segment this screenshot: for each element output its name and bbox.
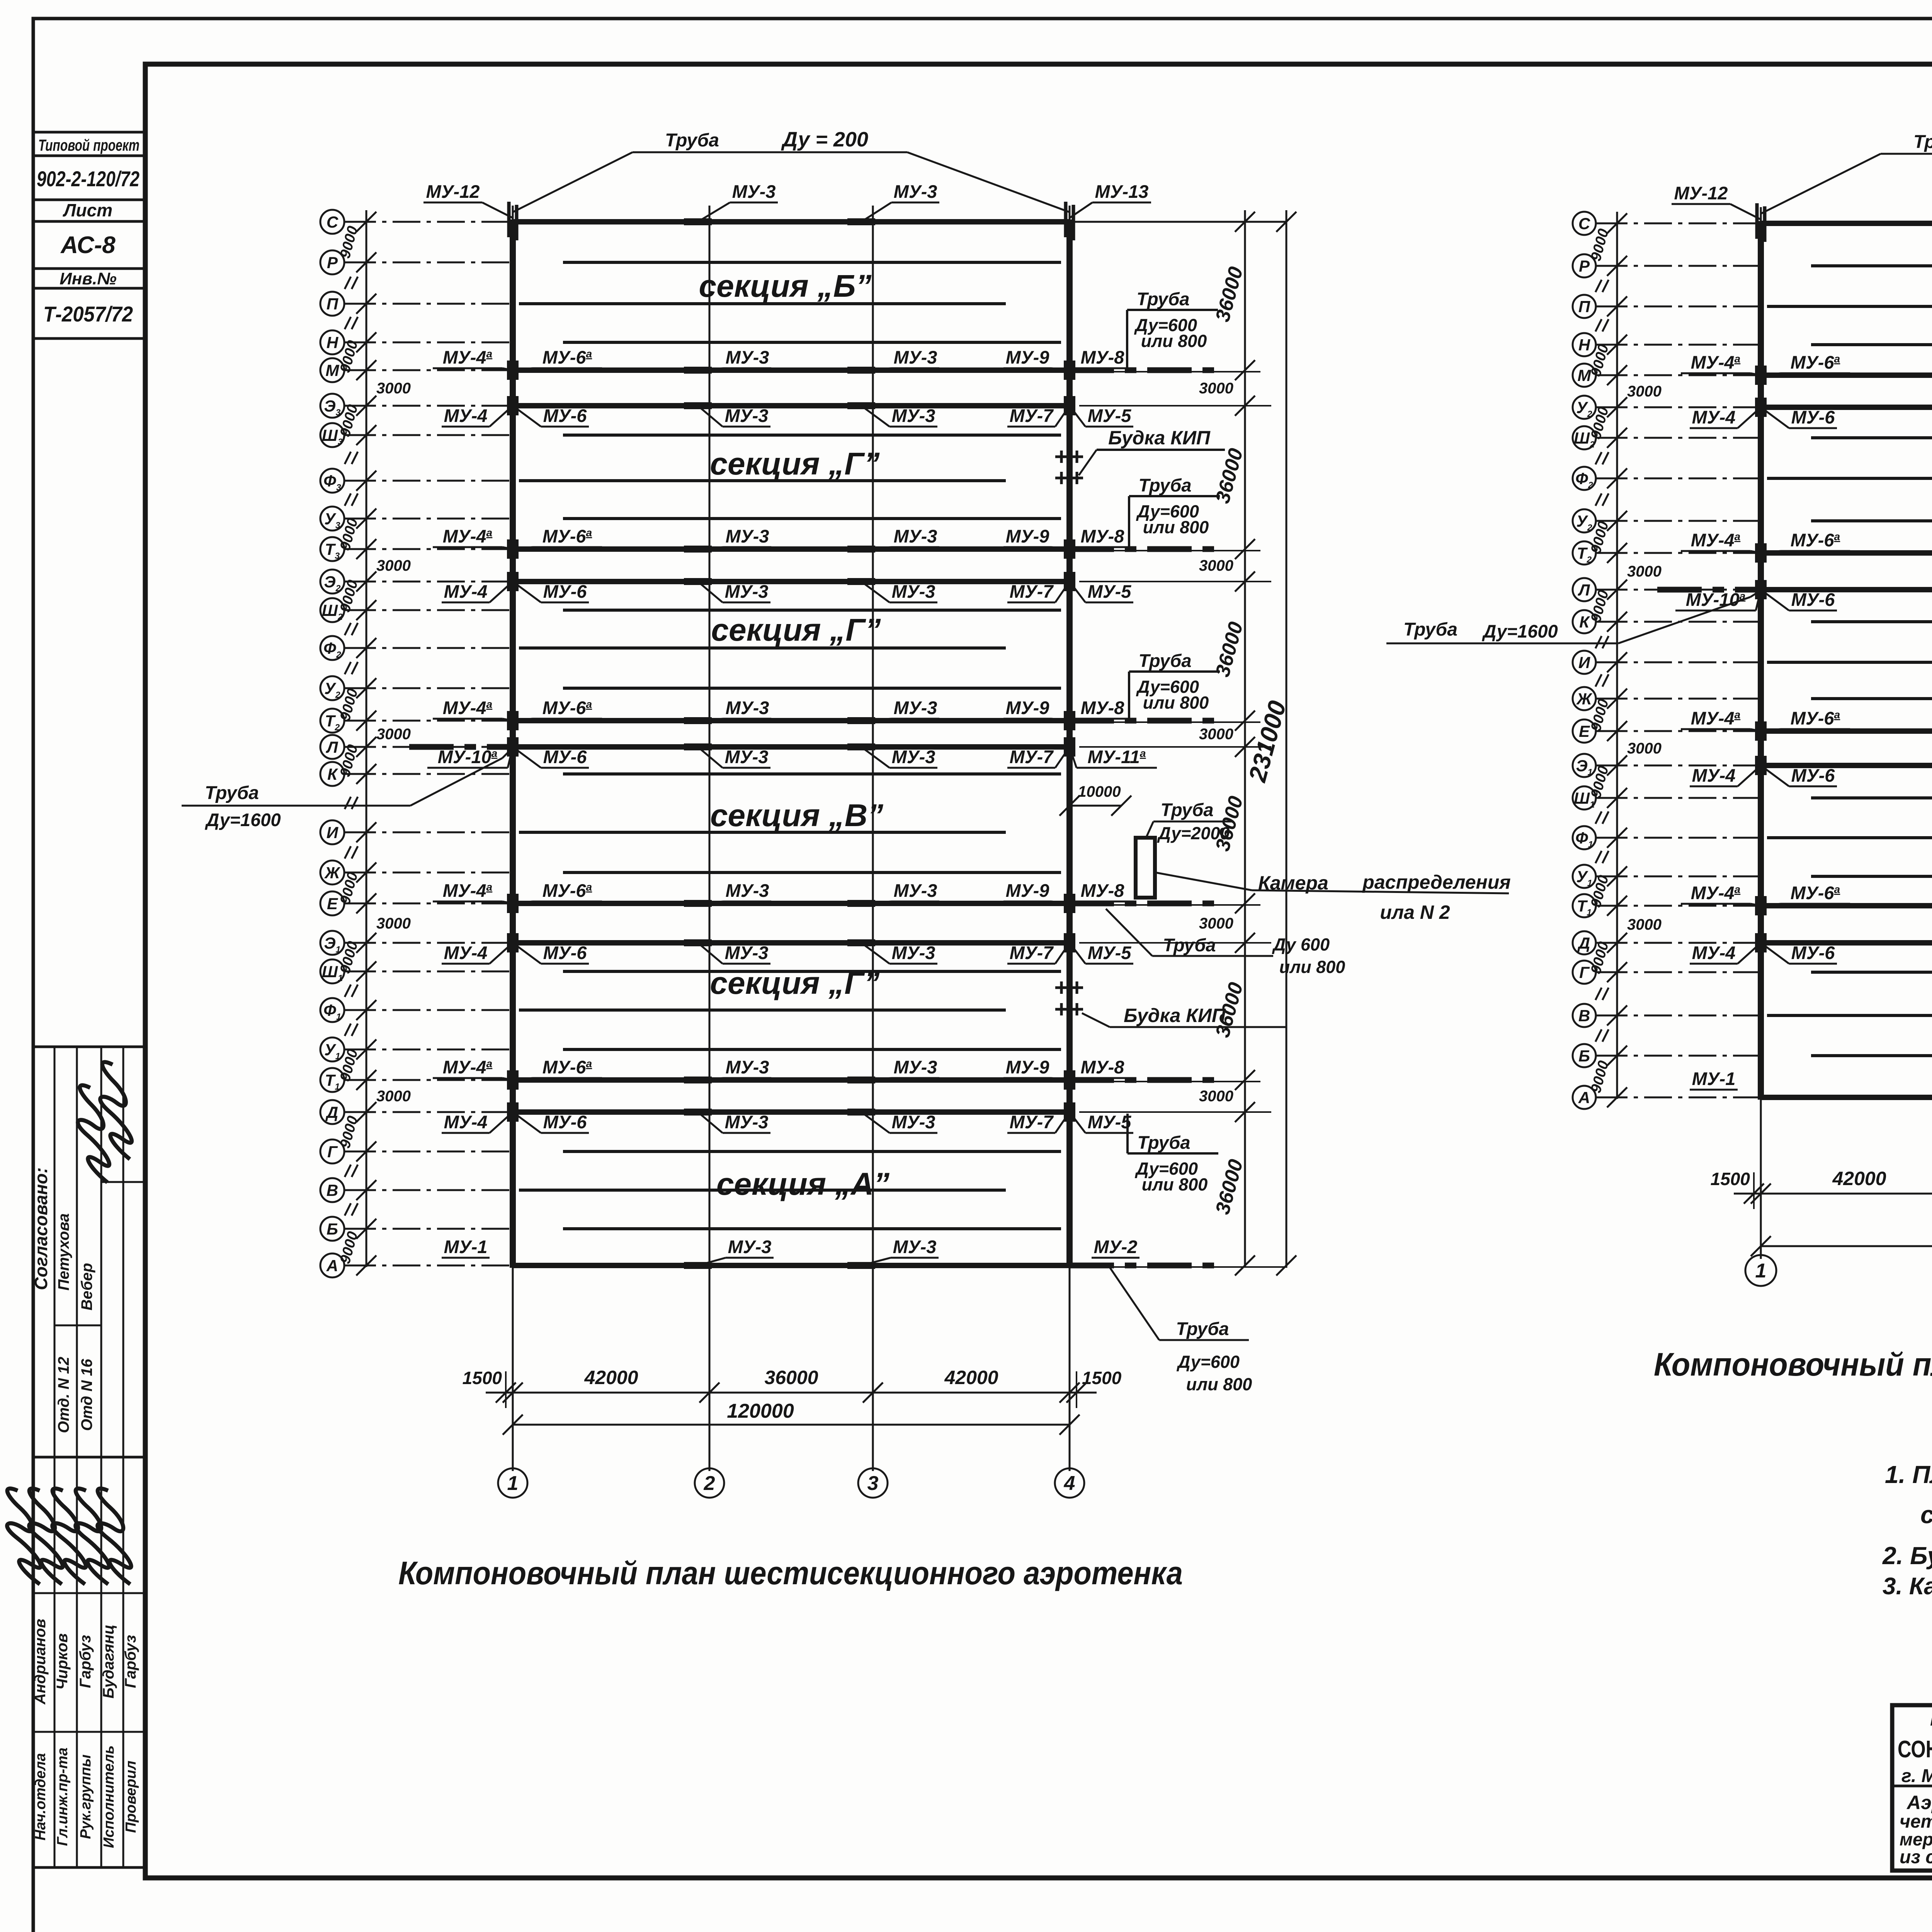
left plan: grid row Г <box>320 1139 344 1163</box>
svg-text:или 800: или 800 <box>1141 331 1207 351</box>
svg-text:Труба: Труба <box>1139 475 1192 495</box>
svg-text:1500: 1500 <box>1082 1368 1122 1388</box>
svg-text:МУ-4: МУ-4 <box>444 581 488 602</box>
svg-text:Л: Л <box>1578 581 1590 599</box>
svg-text:МУ-4а: МУ-4а <box>1691 708 1740 728</box>
right plan: tank side wall left <box>1758 221 1764 1100</box>
approval table inner lines <box>101 1181 145 1183</box>
svg-text:Труба: Труба <box>1138 1132 1190 1153</box>
svg-text:МУ-6: МУ-6 <box>543 405 587 426</box>
svg-text:Вебер: Вебер <box>78 1263 95 1310</box>
svg-text:МУ-4: МУ-4 <box>1692 765 1736 786</box>
svg-text:Труба: Труба <box>1137 289 1190 309</box>
right plan: grid row У2 <box>1573 509 1596 532</box>
right plan: grid row У1 <box>1573 865 1596 888</box>
right plan: grid row Ш1 <box>1573 786 1596 810</box>
svg-text:42000: 42000 <box>1832 1168 1886 1189</box>
svg-text:МУ-3: МУ-3 <box>892 747 935 767</box>
title block left cell split <box>1892 1785 1932 1787</box>
svg-text:МУ-5: МУ-5 <box>1088 1112 1132 1132</box>
svg-text:МУ-5: МУ-5 <box>1088 405 1132 426</box>
svg-text:2. Будку КИП см. лист АС-7: 2. Будку КИП см. лист АС-73. <box>1882 1542 1932 1570</box>
svg-text:Б: Б <box>1578 1047 1590 1065</box>
right plan: bottom dimension line 1 <box>1734 1193 1932 1195</box>
svg-text:МУ-4а: МУ-4а <box>443 1057 492 1077</box>
svg-text:4: 4 <box>1064 1472 1075 1495</box>
right plan: bottom total dim line <box>1761 1245 1932 1247</box>
svg-text:МУ-3: МУ-3 <box>726 1057 769 1077</box>
left plan: bottom dimension line 1 <box>486 1392 1097 1394</box>
svg-text:3000: 3000 <box>1627 383 1662 400</box>
svg-text:МУ-3: МУ-3 <box>728 1236 772 1257</box>
svg-text:Ду=1600: Ду=1600 <box>204 810 281 830</box>
svg-text:42000: 42000 <box>944 1367 998 1388</box>
svg-text:В: В <box>1578 1007 1590 1025</box>
svg-text:секция „Б”: секция „Б” <box>699 269 872 304</box>
svg-text:МУ-4: МУ-4 <box>1692 942 1736 963</box>
svg-text:МУ-7: МУ-7 <box>1010 1112 1054 1132</box>
svg-text:секция „Г”: секция „Г” <box>710 966 879 1001</box>
left plan: grid row Э1 <box>320 931 344 955</box>
svg-text:Ду=2000: Ду=2000 <box>1156 823 1230 843</box>
svg-text:Р: Р <box>327 253 338 272</box>
svg-text:МУ-3: МУ-3 <box>726 880 769 901</box>
right plan: grid row Д <box>1573 931 1596 954</box>
svg-text:МУ-6: МУ-6 <box>1791 589 1835 610</box>
svg-text:МУ-3: МУ-3 <box>894 526 937 546</box>
svg-text:МУ-4а: МУ-4а <box>1691 352 1740 372</box>
svg-text:МУ-2: МУ-2 <box>1094 1236 1138 1257</box>
svg-text:или 800: или 800 <box>1143 517 1209 537</box>
svg-text:3000: 3000 <box>1199 726 1233 743</box>
svg-text:МУ-5: МУ-5 <box>1088 581 1132 602</box>
svg-text:МУ-3: МУ-3 <box>894 1057 937 1077</box>
svg-text:Ж: Ж <box>324 864 341 882</box>
svg-text:С: С <box>1578 214 1590 233</box>
svg-text:36000: 36000 <box>764 1367 818 1388</box>
left plan: grid row В <box>320 1178 344 1202</box>
left plan: grid row У3 <box>320 507 344 531</box>
right plan: grid row Ф2 <box>1573 467 1596 490</box>
right plan: grid row Т1 <box>1573 894 1596 917</box>
svg-text:МУ-10а: МУ-10а <box>438 747 498 767</box>
svg-text:1: 1 <box>507 1472 519 1495</box>
svg-text:3000: 3000 <box>1199 1088 1233 1105</box>
left plan: grid row Ф1 <box>320 998 344 1022</box>
svg-text:МУ-3: МУ-3 <box>892 405 935 426</box>
svg-text:А: А <box>326 1257 338 1275</box>
svg-text:Е: Е <box>327 895 338 913</box>
svg-text:МУ-4а: МУ-4а <box>443 697 492 718</box>
right plan: grid row Ж <box>1573 687 1596 710</box>
svg-text:МУ-3: МУ-3 <box>892 1112 935 1132</box>
svg-text:МУ-10а: МУ-10а <box>1686 589 1746 610</box>
signature squiggle 4 <box>58 1488 126 1584</box>
svg-text:МУ-7: МУ-7 <box>1010 747 1054 767</box>
right plan: grid row Ф1 <box>1573 826 1596 849</box>
svg-text:секция „Г”: секция „Г” <box>711 612 881 648</box>
svg-text:Ж: Ж <box>1576 690 1593 708</box>
svg-text:Будка КИП: Будка КИП <box>1108 427 1211 449</box>
left plan: grid row Ж <box>320 861 344 884</box>
left plan: grid row Ш1 <box>320 959 344 983</box>
left plan: grid row Т2 <box>320 709 344 733</box>
svg-text:МУ-11а: МУ-11а <box>1087 747 1146 767</box>
svg-text:Б: Б <box>327 1220 338 1238</box>
svg-text:Инв.№: Инв.№ <box>60 269 116 288</box>
svg-text:МУ-3: МУ-3 <box>732 181 776 202</box>
svg-text:МУ-6а: МУ-6а <box>1791 530 1840 550</box>
svg-text:Труба: Труба <box>665 130 719 151</box>
svg-text:МУ-3: МУ-3 <box>726 347 769 367</box>
svg-text:МУ-9: МУ-9 <box>1006 880 1049 901</box>
left plan: grid row Ф2 <box>320 636 344 660</box>
svg-text:Госстрой СССР: Госстрой СССР <box>1930 1709 1932 1730</box>
right plan: grid row У2 <box>1573 396 1596 419</box>
right plan: grid row К <box>1573 610 1596 633</box>
svg-text:Труба: Труба <box>205 783 259 803</box>
svg-text:МУ-7: МУ-7 <box>1010 942 1054 963</box>
svg-text:МУ-6: МУ-6 <box>543 581 587 602</box>
svg-text:Исполнитель: Исполнитель <box>101 1745 117 1848</box>
svg-text:120000: 120000 <box>727 1400 794 1422</box>
left plan: grid row М <box>320 358 344 382</box>
svg-text:3000: 3000 <box>376 380 411 397</box>
right plan: inlet marks at top <box>1755 203 1759 239</box>
svg-text:3000: 3000 <box>1199 380 1233 397</box>
signature squiggle 1 <box>0 1488 58 1584</box>
signature squiggle 3 <box>35 1488 103 1584</box>
svg-text:МУ-4: МУ-4 <box>444 405 488 426</box>
svg-text:Труба: Труба <box>1176 1318 1229 1339</box>
title block frame <box>1892 1705 1932 1871</box>
signature squiggle 5 <box>80 1488 148 1584</box>
svg-text:Т-2057/72: Т-2057/72 <box>43 302 133 326</box>
svg-text:МУ-8: МУ-8 <box>1081 347 1125 367</box>
svg-text:Компоновочный план пятисекци: Компоновочный план пятисекционного аэрот… <box>1654 1346 1932 1383</box>
svg-text:3000: 3000 <box>376 915 411 932</box>
left plan: grid row Л <box>320 735 344 759</box>
svg-text:МУ-8: МУ-8 <box>1081 697 1125 718</box>
left plan: row dimension line column <box>366 210 367 1267</box>
svg-text:Г: Г <box>327 1143 338 1161</box>
svg-text:3: 3 <box>867 1472 879 1495</box>
svg-text:И: И <box>327 823 338 842</box>
svg-text:3. Камеру распределения ила: 3. Камеру распределения ила N2 см. л. АС… <box>1883 1573 1932 1600</box>
right plan: grid row Л <box>1573 578 1596 601</box>
left plan: grid row Т3 <box>320 537 344 561</box>
svg-text:МУ-13: МУ-13 <box>1095 181 1149 202</box>
left plan: boundary junction marks <box>684 218 712 225</box>
svg-text:902-2-120/72: 902-2-120/72 <box>37 167 139 191</box>
svg-text:Чирков: Чирков <box>54 1633 71 1690</box>
svg-text:СОЮЗВОДОКАНАЛПРОЕКТ: СОЮЗВОДОКАНАЛПРОЕКТ <box>1898 1736 1932 1763</box>
svg-text:Гарбуз: Гарбуз <box>122 1635 139 1688</box>
signature table row lines <box>33 1592 145 1594</box>
right plan: row dimension line column <box>1616 212 1618 1099</box>
svg-text:Типовой проект: Типовой проект <box>38 136 139 154</box>
svg-text:2: 2 <box>704 1472 715 1495</box>
svg-text:Петухова: Петухова <box>55 1213 72 1291</box>
right plan: grid row И <box>1573 651 1596 674</box>
left plan: grid row Н <box>320 330 344 354</box>
svg-text:МУ-6а: МУ-6а <box>543 1057 592 1077</box>
svg-text:С: С <box>327 213 338 231</box>
svg-text:3000: 3000 <box>1627 916 1662 933</box>
svg-text:Рук.группы: Рук.группы <box>78 1755 94 1839</box>
approval signature 1 <box>58 1085 130 1182</box>
svg-text:ила N 2: ила N 2 <box>1380 901 1450 923</box>
left plan: grid row Ш2 <box>320 598 344 622</box>
svg-text:Г: Г <box>1579 963 1590 981</box>
svg-text:АС-8: АС-8 <box>60 232 116 259</box>
svg-text:МУ-3: МУ-3 <box>894 181 937 202</box>
right plan: grid row С <box>1573 212 1596 235</box>
left plan: grid row У2 <box>320 676 344 700</box>
left plan: grid row Р <box>320 250 344 274</box>
svg-text:или 800: или 800 <box>1143 693 1209 713</box>
svg-text:3000: 3000 <box>376 1088 411 1105</box>
right plan: grid row А <box>1573 1086 1596 1109</box>
right plan: grid row Р <box>1573 254 1596 277</box>
svg-text:1500: 1500 <box>1711 1169 1750 1189</box>
svg-text:Н: Н <box>327 333 339 352</box>
left plan: grid row Ш3 <box>320 423 344 447</box>
left plan: grid row С <box>320 210 344 234</box>
svg-text:или 800: или 800 <box>1142 1175 1208 1194</box>
svg-text:3000: 3000 <box>1627 563 1662 580</box>
svg-text:МУ-6а: МУ-6а <box>543 697 592 718</box>
svg-text:секция „В”: секция „В” <box>710 798 883 833</box>
svg-text:МУ-3: МУ-3 <box>894 347 937 367</box>
signature squiggle 2 <box>12 1488 80 1584</box>
svg-text:МУ-6а: МУ-6а <box>543 526 592 546</box>
svg-text:Труба: Труба <box>1163 935 1216 955</box>
svg-text:3000: 3000 <box>1627 740 1662 757</box>
svg-text:МУ-9: МУ-9 <box>1006 1057 1049 1077</box>
svg-text:42000: 42000 <box>584 1367 638 1388</box>
svg-text:МУ-6: МУ-6 <box>1791 407 1835 427</box>
svg-text:Будагянц: Будагянц <box>100 1624 117 1698</box>
right plan: grid row В <box>1573 1004 1596 1027</box>
svg-text:МУ-3: МУ-3 <box>725 405 769 426</box>
right plan: grid row М <box>1573 364 1596 387</box>
svg-text:3000: 3000 <box>376 557 411 574</box>
left plan: grid row У1 <box>320 1037 344 1061</box>
svg-text:МУ-6: МУ-6 <box>543 1112 587 1132</box>
left plan: grid row П <box>320 292 344 316</box>
svg-text:Нач.отдела: Нач.отдела <box>32 1753 49 1840</box>
left plan: right dim line 36000 <box>1244 210 1246 1268</box>
right plan: grid row Ш2 <box>1573 426 1596 449</box>
svg-text:МУ-6: МУ-6 <box>1791 942 1835 963</box>
svg-text:В: В <box>327 1181 338 1199</box>
svg-text:Д: Д <box>1577 934 1590 952</box>
svg-text:МУ-4: МУ-4 <box>444 1112 488 1132</box>
left plan: column axis lines 1-4 <box>512 206 514 1471</box>
right plan: grid row Б <box>1573 1044 1596 1067</box>
svg-text:3000: 3000 <box>1199 557 1233 574</box>
svg-text:Компоновочный план шестисекц: Компоновочный план шестисекционного аэро… <box>398 1555 1183 1591</box>
svg-text:МУ-6: МУ-6 <box>543 942 587 963</box>
right plan: grid row Г <box>1573 961 1596 984</box>
right plan: grid row Э1 <box>1573 754 1596 777</box>
svg-text:Согласовано:: Согласовано: <box>31 1167 51 1290</box>
approval table frame <box>33 1047 145 1457</box>
svg-text:или 800: или 800 <box>1279 957 1345 977</box>
svg-text:МУ-1: МУ-1 <box>444 1236 488 1257</box>
svg-text:Р: Р <box>1579 257 1590 275</box>
svg-text:МУ-6: МУ-6 <box>543 747 587 767</box>
svg-text:Ду = 200: Ду = 200 <box>781 128 868 151</box>
svg-text:МУ-12: МУ-12 <box>426 181 480 202</box>
svg-text:МУ-4: МУ-4 <box>444 942 488 963</box>
svg-text:1500: 1500 <box>463 1368 502 1388</box>
left plan: grid row К <box>320 762 344 786</box>
svg-text:А: А <box>1578 1088 1590 1107</box>
svg-text:МУ-3: МУ-3 <box>894 880 937 901</box>
svg-text:Отд. N 12: Отд. N 12 <box>55 1357 72 1433</box>
svg-text:МУ-4а: МУ-4а <box>1691 530 1740 550</box>
svg-text:Аэротенки-смесители: Аэротенки-смесители <box>1906 1792 1932 1813</box>
svg-text:распределения: распределения <box>1362 871 1510 893</box>
svg-text:или 800: или 800 <box>1186 1374 1252 1394</box>
svg-text:МУ-3: МУ-3 <box>892 581 935 602</box>
svg-text:МУ-3: МУ-3 <box>893 1236 937 1257</box>
svg-text:МУ-7: МУ-7 <box>1010 581 1054 602</box>
left plan: grid row Э3 <box>320 394 344 418</box>
svg-text:10000: 10000 <box>1078 783 1121 800</box>
left plan: inlet marks at top <box>507 202 511 237</box>
svg-text:см. л.л. АС-9,10.: см. л.л. АС-9,10. <box>1920 1501 1932 1529</box>
left plan: sludge distribution chamber rectangle <box>1136 838 1155 898</box>
svg-text:МУ-4а: МУ-4а <box>1691 883 1740 903</box>
right plan: column axis lines 1-4 <box>1760 207 1762 1259</box>
svg-text:3000: 3000 <box>1199 915 1233 932</box>
svg-text:МУ-8: МУ-8 <box>1081 1057 1125 1077</box>
svg-text:Труба: Труба <box>1913 132 1932 152</box>
svg-text:Гл.инж.пр-та: Гл.инж.пр-та <box>54 1748 71 1846</box>
svg-text:МУ-3: МУ-3 <box>725 942 769 963</box>
signature table frame <box>33 1457 145 1867</box>
svg-text:секция „А”: секция „А” <box>716 1167 889 1202</box>
svg-text:МУ-9: МУ-9 <box>1006 526 1049 546</box>
svg-text:Ду=1600: Ду=1600 <box>1481 621 1558 641</box>
svg-text:Андрианов: Андрианов <box>32 1619 49 1705</box>
svg-text:г. Москва: г. Москва <box>1901 1766 1932 1786</box>
svg-text:Д: Д <box>325 1103 338 1121</box>
approval table column lines <box>54 1047 56 1457</box>
svg-text:МУ-4а: МУ-4а <box>443 347 492 367</box>
left plan: grid row Э2 <box>320 570 344 594</box>
approval signature 2 <box>80 1061 153 1159</box>
svg-text:Ду=600: Ду=600 <box>1176 1352 1240 1372</box>
right plan: column circles <box>1745 1255 1776 1286</box>
svg-text:МУ-6а: МУ-6а <box>1791 708 1840 728</box>
left plan: grid row Т1 <box>320 1068 344 1092</box>
svg-text:Труба: Труба <box>1403 619 1458 640</box>
svg-text:П: П <box>327 295 338 313</box>
svg-text:МУ-4а: МУ-4а <box>443 880 492 901</box>
svg-text:Ду 600: Ду 600 <box>1272 935 1330 954</box>
svg-text:МУ-12: МУ-12 <box>1674 183 1728 203</box>
left plan: grid row Ф3 <box>320 469 344 493</box>
left plan: grid row И <box>320 820 344 844</box>
left plan: grid row А <box>320 1253 344 1277</box>
svg-text:мерами коридора 9×5,2×120: мерами коридора 9×5,2×120 <box>1900 1829 1932 1849</box>
right plan: grid row П <box>1573 295 1596 318</box>
svg-text:МУ-3: МУ-3 <box>725 581 769 602</box>
stamp column cell lines <box>33 131 145 134</box>
svg-text:Лист: Лист <box>63 200 112 220</box>
svg-text:МУ-3: МУ-3 <box>725 747 769 767</box>
svg-text:Труба: Труба <box>1161 799 1214 820</box>
svg-text:МУ-8: МУ-8 <box>1081 880 1125 901</box>
svg-text:Гарбуз: Гарбуз <box>77 1635 94 1688</box>
svg-text:1: 1 <box>1755 1260 1767 1282</box>
svg-text:МУ-3: МУ-3 <box>726 526 769 546</box>
svg-text:Будка КИП: Будка КИП <box>1124 1005 1226 1026</box>
right plan: grid row Е <box>1573 719 1596 743</box>
signature table column lines <box>54 1457 56 1867</box>
svg-text:МУ-6а: МУ-6а <box>1791 352 1840 372</box>
left plan: right dim line total <box>1286 210 1287 1268</box>
svg-text:секция „Г”: секция „Г” <box>710 446 879 481</box>
svg-text:МУ-4: МУ-4 <box>1692 407 1736 427</box>
right plan: grid row Т2 <box>1573 541 1596 565</box>
svg-text:МУ-4а: МУ-4а <box>443 526 492 546</box>
right plan: grid row Н <box>1573 333 1596 356</box>
svg-text:МУ-9: МУ-9 <box>1006 347 1049 367</box>
svg-text:3000: 3000 <box>376 726 411 743</box>
svg-text:МУ-6а: МУ-6а <box>1791 883 1840 903</box>
svg-text:Л: Л <box>326 738 338 756</box>
svg-text:Труба: Труба <box>1139 650 1192 671</box>
svg-text:МУ-7: МУ-7 <box>1010 405 1054 426</box>
svg-text:Проверил: Проверил <box>123 1761 139 1833</box>
svg-text:из сборного железобетона: из сборного железобетона <box>1900 1847 1932 1867</box>
left plan: grid row Е <box>320 891 344 915</box>
svg-text:П: П <box>1578 298 1590 316</box>
left plan: dim 10000 at sludge chamber <box>1070 805 1121 807</box>
svg-text:МУ-1: МУ-1 <box>1692 1068 1736 1089</box>
svg-text:МУ-3: МУ-3 <box>894 697 937 718</box>
left plan: bottom total dim line <box>513 1424 1070 1426</box>
svg-text:Отд N 16: Отд N 16 <box>78 1359 95 1431</box>
svg-text:МУ-6а: МУ-6а <box>543 880 592 901</box>
svg-text:МУ-6: МУ-6 <box>1791 765 1835 786</box>
svg-text:МУ-6а: МУ-6а <box>543 347 592 367</box>
svg-text:МУ-3: МУ-3 <box>892 942 935 963</box>
svg-text:МУ-8: МУ-8 <box>1081 526 1125 546</box>
left plan: tank side wall left <box>510 219 516 1268</box>
svg-text:И: И <box>1578 653 1590 672</box>
svg-text:МУ-3: МУ-3 <box>726 697 769 718</box>
left plan: grid row Б <box>320 1217 344 1241</box>
svg-text:МУ-5: МУ-5 <box>1088 942 1132 963</box>
svg-text:МУ-3: МУ-3 <box>725 1112 769 1132</box>
svg-text:МУ-9: МУ-9 <box>1006 697 1049 718</box>
svg-text:Н: Н <box>1578 336 1591 354</box>
left plan: column circles <box>498 1468 527 1498</box>
left plan: grid row Д <box>320 1100 344 1124</box>
left plan: tank side wall right <box>1066 219 1073 1268</box>
svg-text:1. План, разрезы и детали п: 1. План, разрезы и детали по секциям <box>1885 1461 1932 1488</box>
